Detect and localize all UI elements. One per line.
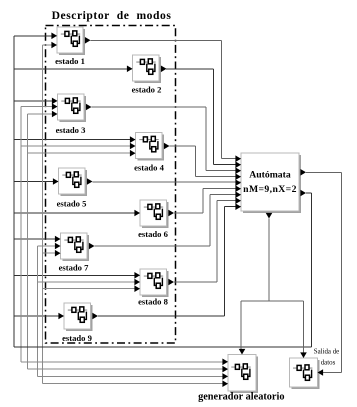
wire V3 vertical [27, 114, 29, 369]
wire e9 output [98, 315, 225, 317]
wire automata out1 [306, 171, 342, 173]
wire trunk V1 vertical [13, 36, 15, 347]
wire e1 input2 [42, 44, 57, 46]
wire e8 input1 [14, 274, 140, 276]
wire automata in6 [203, 188, 241, 190]
block estado 9 [64, 303, 93, 331]
ports estado 5 [53, 178, 93, 185]
wire automata in9 [225, 206, 242, 208]
ports Salida de datos [300, 352, 323, 375]
ports estado 6 [134, 210, 174, 217]
wire automata in8 [217, 200, 241, 202]
svg-text:nM=9,nX=2: nM=9,nX=2 [243, 184, 297, 195]
wire generador input1 [21, 361, 228, 363]
wire salida top input [303, 301, 305, 354]
block estado 1 [57, 27, 85, 55]
wire e6 input1 [14, 212, 140, 214]
wire automata out2 stub [306, 192, 312, 194]
wire e7 input3 [42, 252, 60, 254]
wire automata in7 [210, 194, 241, 196]
ports estado 4 [130, 136, 170, 156]
wire V4 vertical [37, 246, 39, 376]
wire V2 vertical [20, 107, 22, 362]
wire e4 input2 [21, 145, 136, 147]
block estado 3 [58, 94, 87, 122]
block estado 2 [133, 55, 162, 83]
block estado 6 [140, 200, 169, 228]
icon estado 2 [136, 59, 155, 74]
wire e5 output to automata in5 [93, 181, 242, 183]
svg-text:estado 6: estado 6 [138, 229, 169, 239]
svg-text:estado 1: estado 1 [55, 56, 85, 66]
wire e6-in6 vertical [202, 189, 204, 213]
icon estado 7 [64, 237, 83, 252]
wire e2-in2 vertical [213, 69, 215, 165]
icon estado 8 [144, 273, 163, 288]
wire e2 input1 [14, 68, 133, 70]
block estado 8 [140, 269, 169, 297]
svg-text:estado 8: estado 8 [138, 297, 169, 307]
ports generador aleatorio [222, 349, 245, 387]
wire e4 input1 [14, 139, 136, 141]
block estado 5 [59, 168, 88, 196]
svg-text:generador aleatorio: generador aleatorio [198, 392, 284, 403]
wire e1 input1 [14, 35, 57, 37]
wire e8 input3 [42, 288, 140, 290]
wire e8 input2 [38, 281, 141, 283]
wire generador top input [240, 301, 242, 350]
ports estado 2 [127, 66, 167, 73]
wire e7-in7 vertical [209, 195, 211, 246]
dashed subsystem frame Descriptor de modos [46, 26, 176, 344]
ports estado 8 [134, 272, 174, 292]
wire automata in3 [206, 170, 241, 172]
wire e4 output [170, 145, 196, 147]
svg-text:Descriptor de modos: Descriptor de modos [52, 9, 172, 22]
wire e3-in3 vertical [205, 107, 207, 171]
svg-text:estado 2: estado 2 [132, 85, 162, 95]
wire e9-in9 vertical [224, 207, 226, 316]
wire e8 output [174, 281, 217, 283]
wire e1-in1 vertical [221, 40, 223, 158]
svg-text:estado 3: estado 3 [56, 125, 86, 135]
wire automata bottom output [268, 219, 270, 302]
block Automata [241, 153, 301, 213]
wire e3 input2 [21, 106, 58, 108]
icon estado 5 [62, 172, 81, 187]
wire automata in1 [222, 158, 242, 160]
block Salida de datos [290, 358, 320, 389]
wire e2 output [166, 68, 214, 70]
wire automata in4 [195, 176, 241, 178]
svg-text:estado 9: estado 9 [62, 333, 92, 343]
wire e7 output [95, 245, 210, 247]
wire salida right input [318, 372, 342, 374]
wire e4-in4 vertical [194, 146, 196, 177]
svg-text:estado 5: estado 5 [57, 199, 87, 209]
icon estado 1 [61, 31, 80, 46]
icon estado 3 [61, 98, 80, 113]
wire bottom branch horizontal [241, 300, 304, 302]
ports estado 1 [51, 33, 90, 49]
wire e1 output [91, 39, 222, 41]
ports estado 7 [55, 236, 95, 257]
wire automata in2 [214, 164, 241, 166]
wire e7 input1 [14, 238, 61, 240]
wire e8-in8 vertical [216, 201, 218, 282]
wire out1 vertical [341, 172, 343, 372]
wire trunk bottom horizontal [14, 346, 312, 348]
wire e3 input3 [28, 113, 58, 115]
wire generador input4 [42, 383, 228, 385]
icon generador aleatorio [231, 364, 250, 379]
svg-text:estado 7: estado 7 [59, 263, 90, 273]
icon estado 9 [68, 307, 87, 322]
wire e6 output [174, 212, 203, 214]
icon Salida de datos [293, 365, 312, 380]
wire V5 vertical [41, 45, 43, 384]
wire e4 input3 [28, 152, 136, 154]
wire generador input3 [38, 375, 229, 377]
wire e3 output [92, 106, 207, 108]
wire e7 input2 [38, 245, 61, 247]
wire e3 input1 [14, 100, 58, 102]
svg-text:Autómata: Autómata [249, 170, 291, 181]
block generador aleatorio [228, 355, 258, 394]
block estado 7 [61, 233, 90, 261]
icon estado 6 [144, 204, 163, 219]
block estado 4 [136, 133, 165, 161]
wire e9 input1 [14, 315, 64, 317]
ports Automata [235, 155, 306, 218]
wire generador input2 [28, 368, 229, 370]
icon estado 4 [139, 136, 158, 151]
wire automata out2 vertical [311, 193, 313, 347]
wire e5 input1 [14, 181, 59, 183]
svg-text:Salida de: Salida de [314, 348, 339, 355]
ports estado 3 [52, 98, 92, 118]
svg-text:estado 4: estado 4 [134, 163, 165, 173]
svg-text:datos: datos [321, 359, 336, 366]
ports estado 9 [58, 313, 98, 320]
